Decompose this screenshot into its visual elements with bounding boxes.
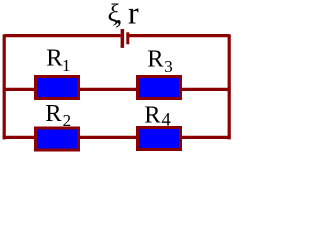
- svg-text:R: R: [46, 45, 63, 72]
- svg-text:R: R: [45, 100, 62, 127]
- svg-text:2: 2: [63, 111, 72, 130]
- svg-text:3: 3: [164, 57, 173, 76]
- svg-text:4: 4: [162, 111, 171, 131]
- svg-text:1: 1: [62, 56, 71, 75]
- svg-text:R: R: [144, 102, 161, 129]
- svg-text:,: ,: [115, 0, 123, 30]
- svg-text:R: R: [147, 46, 164, 73]
- svg-text:r: r: [128, 0, 139, 31]
